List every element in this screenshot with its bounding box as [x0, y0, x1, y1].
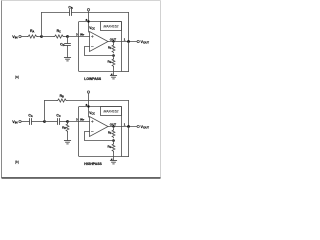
wire op-amp output	[108, 41, 137, 43]
op-amp U1 triangle	[90, 32, 109, 52]
wire node D down to RD	[67, 122, 69, 124]
wire RG to ground	[113, 67, 115, 76]
wire node A up to top rail	[41, 13, 43, 37]
part number box U2	[101, 107, 122, 116]
svg-text:VOUT: VOUT	[141, 125, 150, 129]
wire to RF	[113, 127, 115, 130]
op-amp U2 triangle	[90, 117, 109, 137]
resistor RG (internal)	[112, 144, 115, 152]
svg-text:VIN: VIN	[12, 35, 17, 39]
wire RF to RG	[113, 56, 115, 59]
svg-text:RF: RF	[108, 131, 112, 135]
wire input to RA	[21, 36, 27, 38]
svg-text:RG: RG	[107, 145, 111, 149]
wire to RF	[113, 42, 115, 45]
svg-text:MAX4162: MAX4162	[104, 109, 119, 113]
wire supply to op-amp VCC	[88, 93, 90, 117]
svg-text:HIGHPASS: HIGHPASS	[84, 162, 102, 166]
resistor RD	[66, 124, 69, 132]
svg-text:VCC: VCC	[89, 26, 95, 30]
resistor RG (internal)	[112, 59, 115, 67]
minus input mark	[91, 46, 93, 48]
svg-text:CB: CB	[68, 6, 72, 10]
resistor RA	[28, 35, 38, 38]
capacitor CD	[65, 43, 71, 45]
wire RF to RG	[113, 141, 115, 144]
wire RG to ground	[113, 152, 115, 161]
svg-text:IN+: IN+	[80, 33, 85, 37]
wire to box corner	[122, 71, 129, 73]
node A junction	[40, 35, 43, 38]
wire CA to node C	[32, 121, 45, 123]
wire supply to op-amp VCC	[88, 11, 90, 32]
wire feedback wrap from -input	[85, 47, 114, 56]
svg-text:RA: RA	[30, 29, 34, 33]
pin 8 junction on box	[87, 20, 89, 22]
op-amp U2 package box	[79, 107, 122, 157]
resistor RF (internal)	[112, 45, 115, 53]
wire op-amp output	[108, 126, 137, 128]
supply terminal V+	[87, 9, 89, 11]
part number box U1	[101, 22, 122, 31]
wire top rail left segment	[42, 12, 70, 14]
wire output node down	[128, 42, 130, 72]
svg-text:LOWPASS: LOWPASS	[84, 77, 102, 81]
wire node B down to CD	[67, 37, 69, 44]
junction RF top	[112, 40, 114, 42]
svg-text:CA: CA	[28, 114, 32, 118]
svg-text:CD: CD	[60, 43, 64, 47]
wire feedback wrap from -input	[85, 132, 114, 141]
wire RA to node A	[38, 36, 42, 38]
svg-text:RD: RD	[62, 125, 66, 129]
wire node C up to feedback rail	[44, 101, 46, 122]
wire feedback rail down to output node	[128, 101, 130, 127]
output terminal VOUT (a)	[137, 40, 139, 42]
wire node C to CC	[45, 121, 58, 123]
svg-text:(a): (a)	[15, 75, 19, 79]
ground (under RD)	[64, 140, 70, 142]
wire RD to ground	[67, 132, 69, 141]
svg-text:VCC: VCC	[89, 111, 95, 115]
wire node D to op-amp +input	[68, 121, 90, 123]
ground (under RG)	[110, 75, 116, 77]
wire CC to node D	[60, 121, 68, 123]
svg-text:MAX4162: MAX4162	[104, 24, 119, 28]
plus input mark	[91, 121, 93, 123]
wire to box corner	[122, 156, 129, 158]
page border frame	[2, 0, 161, 2]
junction RF/RG node	[112, 54, 115, 57]
wire CD to ground	[67, 46, 69, 58]
ground (under RG)	[110, 160, 116, 162]
wire input to CA	[21, 121, 29, 123]
pin 8 junction on box	[87, 105, 89, 107]
capacitor CC	[57, 119, 59, 125]
svg-text:IN+: IN+	[80, 118, 85, 122]
wire output node down	[128, 127, 130, 157]
junction RF top	[112, 125, 114, 127]
svg-text:RB: RB	[60, 94, 64, 98]
node C junction	[43, 120, 46, 123]
resistor RC	[54, 35, 64, 38]
wire top rail down to output node	[128, 13, 130, 42]
node D junction	[66, 120, 69, 123]
wire RC to node B	[64, 36, 68, 38]
wire top rail right segment	[72, 12, 129, 14]
svg-text:CC: CC	[56, 114, 60, 118]
svg-text:(b): (b)	[15, 160, 19, 164]
wire feedback rail left segment	[45, 100, 58, 102]
output terminal VOUT (b)	[137, 125, 139, 127]
wire node B to op-amp +input	[68, 36, 90, 38]
minus input mark	[91, 131, 93, 133]
resistor RF (internal)	[112, 130, 115, 138]
wire node A to RC	[42, 36, 55, 38]
output node junction	[127, 125, 130, 128]
output node junction	[127, 40, 130, 43]
capacitor CA	[29, 119, 31, 125]
svg-text:RG: RG	[107, 60, 111, 64]
junction RF/RG node	[112, 139, 115, 142]
supply terminal V+	[87, 91, 89, 93]
ground (under CD)	[64, 57, 70, 59]
node B junction	[66, 35, 69, 38]
svg-text:VOUT: VOUT	[141, 40, 150, 44]
op-amp U1 package box	[79, 22, 122, 72]
plus input mark	[91, 36, 93, 38]
resistor RB	[57, 99, 67, 102]
svg-text:RF: RF	[108, 46, 112, 50]
svg-text:RC: RC	[57, 29, 61, 33]
wire feedback rail right segment	[67, 100, 129, 102]
svg-text:VIN: VIN	[12, 120, 17, 124]
capacitor CB	[69, 10, 71, 16]
